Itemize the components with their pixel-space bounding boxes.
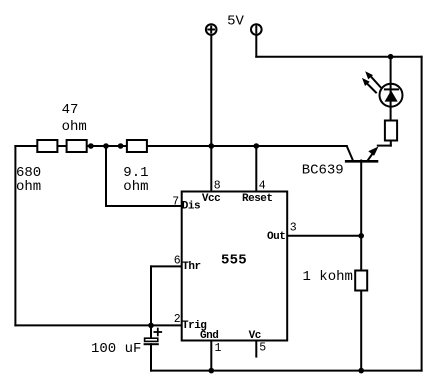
wire thr pin 6 stub (151, 265, 182, 267)
svg-text:Out: Out (267, 231, 285, 243)
svg-text:5V: 5V (227, 13, 244, 29)
transistor Q1 emitter arrowhead (368, 147, 378, 156)
svg-text:2: 2 (174, 313, 181, 326)
resistor 9.1 ohm (127, 140, 147, 152)
transistor Q1 BC639 base bar (346, 160, 377, 163)
junction dot gnd rail (209, 368, 215, 374)
junction dot vcc rail (209, 143, 215, 149)
IC U1 555 body (182, 192, 288, 341)
wire dis branch vertical (105, 146, 107, 206)
svg-text:47: 47 (62, 102, 79, 118)
wire left side vertical (14, 146, 16, 325)
svg-text:ohm: ohm (16, 179, 41, 195)
wire gnd pin 1 down (210, 341, 212, 371)
junction dot rail right (118, 143, 124, 149)
svg-text:Dis: Dis (182, 201, 200, 213)
wire capacitor top to trig rail (150, 325, 152, 338)
LED emission arrow 1 (365, 71, 380, 87)
svg-text:Reset: Reset (242, 193, 273, 205)
wire collector vertical lower (360, 291, 362, 371)
wire bottom rail (151, 370, 422, 372)
wire reset pin 4 (255, 146, 257, 192)
wire collector vertical upper (360, 161, 362, 271)
resistor 1 kohm (355, 271, 367, 291)
wire return terminal down (255, 36, 257, 57)
svg-text:1: 1 (215, 342, 222, 355)
terminal 5V positive (206, 24, 217, 35)
junction dot LED top (388, 54, 394, 60)
svg-text:Vcc: Vcc (202, 193, 220, 205)
svg-text:BC639: BC639 (302, 163, 344, 179)
svg-text:555: 555 (221, 253, 247, 269)
LED D1 triangle (385, 90, 398, 101)
wire main rail y146 (15, 145, 346, 147)
junction dot trig cap (148, 323, 154, 329)
wire dis branch horizontal to pin 7 (106, 205, 182, 207)
wire LED branch through LED (390, 57, 392, 121)
wire base diagonal (347, 146, 353, 160)
junction dot reset rail (253, 143, 259, 149)
capacitor plus sign (154, 329, 161, 336)
LED emission arrow 2 (362, 78, 376, 93)
svg-text:7: 7 (172, 195, 179, 208)
junction dot rail dis branch (103, 143, 109, 149)
resistor LED series (385, 121, 397, 141)
junction dot out collector (358, 233, 364, 239)
svg-text:1 kohm: 1 kohm (303, 269, 353, 285)
capacitor C1 100uF negative plate (145, 343, 158, 345)
svg-text:ohm: ohm (62, 119, 87, 135)
svg-text:ohm: ohm (123, 179, 148, 195)
wire right side vertical (421, 57, 423, 371)
wire capacitor bottom to rail (150, 344, 152, 370)
wire +5V terminal down to Vcc pin 8 (210, 36, 212, 192)
wire thr down to trig rail (150, 266, 152, 325)
svg-text:Vc: Vc (249, 330, 261, 342)
svg-text:Thr: Thr (182, 261, 200, 273)
capacitor C1 100uF positive plate (145, 338, 158, 341)
LED D1 circle (380, 84, 403, 107)
svg-text:4: 4 (259, 180, 266, 193)
wire emitter jog horizontal (378, 145, 391, 147)
svg-text:8: 8 (214, 180, 221, 193)
junction dot 1k bottom (358, 368, 364, 374)
svg-text:5: 5 (259, 341, 266, 354)
junction dot rail left (88, 143, 94, 149)
resistor 47 ohm (67, 140, 87, 152)
resistor 680 ohm (37, 140, 57, 152)
wire out pin 3 (287, 235, 361, 237)
transistor Q1 emitter line (367, 152, 373, 161)
terminal 5V return (251, 24, 262, 35)
wire top right horizontal (256, 56, 421, 58)
svg-text:Gnd: Gnd (200, 330, 218, 342)
svg-text:6: 6 (174, 254, 181, 267)
wire trig rail (15, 324, 181, 326)
wire emitter jog vertical (390, 141, 392, 146)
LED D1 cathode bar (385, 88, 398, 90)
svg-text:3: 3 (290, 222, 297, 235)
svg-text:100 uF: 100 uF (91, 341, 141, 357)
wire vc pin 5 stub (255, 341, 257, 357)
